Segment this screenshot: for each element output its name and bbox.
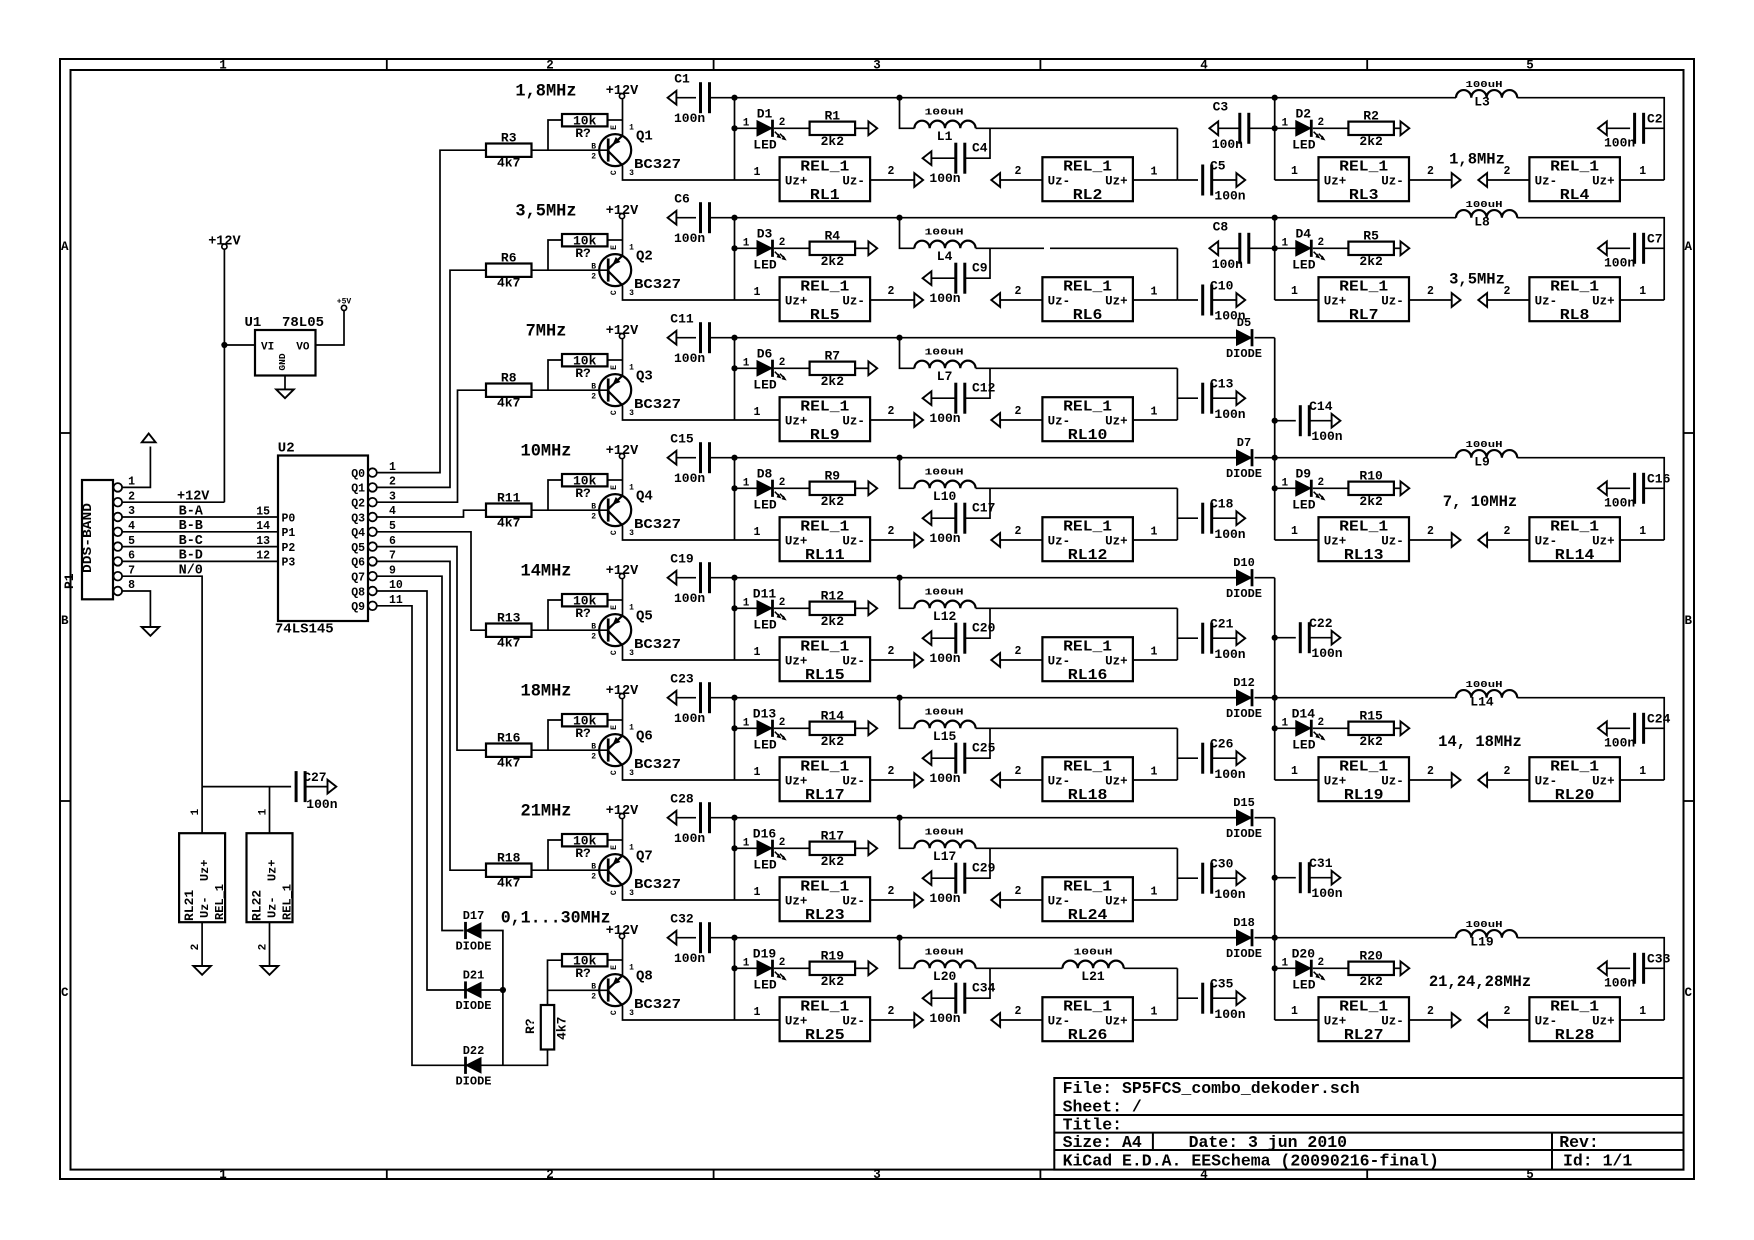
svg-text:1: 1 bbox=[629, 964, 634, 973]
svg-text:100n: 100n bbox=[674, 591, 705, 606]
open arrow after C31 bbox=[1332, 871, 1341, 885]
wire to RL1 pin1 bbox=[735, 179, 780, 181]
diode D18 bbox=[1226, 916, 1262, 961]
wire U2 Q4 to row resistor bbox=[377, 532, 486, 630]
svg-text:REL_1: REL_1 bbox=[1063, 1000, 1112, 1016]
ground under RL21 bbox=[193, 966, 211, 975]
wire row 4 top line bbox=[735, 457, 900, 459]
svg-text:Uz-: Uz- bbox=[1535, 295, 1558, 309]
resistor R19 2k2 bbox=[810, 949, 856, 989]
svg-text:1: 1 bbox=[1151, 646, 1158, 659]
svg-text:L17: L17 bbox=[933, 849, 956, 864]
svg-text:L8: L8 bbox=[1474, 215, 1490, 230]
wire D19 to R19 bbox=[774, 967, 810, 969]
resistor R? 10k row 3 bbox=[562, 353, 608, 381]
open arrow RL17 pin2 bbox=[914, 773, 923, 787]
open arrow RL9 pin2 bbox=[914, 413, 923, 427]
open arrow left of C1 bbox=[668, 91, 677, 105]
svg-text:D1: D1 bbox=[757, 106, 773, 121]
svg-text:B: B bbox=[591, 622, 596, 631]
svg-text:3: 3 bbox=[629, 889, 634, 898]
capacitor C7 bbox=[1604, 232, 1663, 271]
svg-text:DDS-BAND: DDS-BAND bbox=[80, 503, 95, 573]
RL25 pin 1 label bbox=[754, 1006, 761, 1019]
svg-text:7MHz: 7MHz bbox=[526, 322, 567, 342]
svg-text:LED: LED bbox=[753, 258, 777, 273]
svg-text:BC327: BC327 bbox=[634, 877, 681, 893]
svg-text:B-D: B-D bbox=[179, 549, 203, 564]
svg-text:4k7: 4k7 bbox=[497, 276, 520, 291]
RL17 pin 2 label bbox=[888, 765, 895, 778]
wire C22 to arrow bbox=[1309, 637, 1331, 639]
svg-text:BC327: BC327 bbox=[634, 157, 681, 173]
svg-text:D12: D12 bbox=[1233, 676, 1255, 690]
wire to C13 bbox=[1177, 397, 1198, 399]
RL3 pin 2 label bbox=[1427, 165, 1434, 178]
svg-text:Uz-: Uz- bbox=[1048, 535, 1071, 549]
band label 21,24,28MHz bbox=[1429, 973, 1531, 991]
band label 0,1...30MHz bbox=[501, 909, 611, 929]
svg-text:3: 3 bbox=[629, 1009, 634, 1018]
svg-text:REL_1: REL_1 bbox=[1063, 880, 1112, 896]
wire C11 left bbox=[676, 337, 696, 339]
svg-text:Title:: Title: bbox=[1063, 1116, 1122, 1135]
svg-text:1: 1 bbox=[1291, 285, 1298, 298]
wire RL18 pin1 bbox=[1133, 779, 1178, 781]
wire relay supply net bbox=[202, 786, 291, 788]
inductor L7 100uH bbox=[914, 346, 975, 384]
svg-text:1: 1 bbox=[743, 598, 750, 610]
svg-text:RL16: RL16 bbox=[1068, 668, 1108, 684]
RL27 pin 2 label bbox=[1427, 1005, 1434, 1018]
svg-text:C23: C23 bbox=[670, 672, 694, 687]
wire row 2 top line bbox=[735, 217, 900, 219]
wire RL7 pin2 bbox=[1409, 299, 1452, 301]
wire RL11 pin2 bbox=[870, 539, 915, 541]
svg-text:R2: R2 bbox=[1363, 109, 1379, 124]
junction D7 cathode bbox=[1272, 455, 1278, 461]
wire C26 to arrow bbox=[1212, 757, 1237, 759]
svg-text:2: 2 bbox=[1317, 237, 1324, 249]
svg-text:100n: 100n bbox=[674, 471, 705, 486]
open arrow after R10 bbox=[1401, 481, 1410, 495]
svg-text:1: 1 bbox=[1639, 285, 1646, 298]
svg-text:R4: R4 bbox=[824, 229, 840, 244]
resistor R4 2k2 bbox=[810, 229, 856, 269]
junction row 2 right drop bbox=[1272, 215, 1278, 221]
title block frame bbox=[1054, 1078, 1683, 1170]
svg-text:2: 2 bbox=[591, 873, 596, 882]
inductor L21 100uH bbox=[1063, 946, 1124, 984]
wire C1 left bbox=[676, 97, 696, 99]
svg-text:RL9: RL9 bbox=[810, 428, 840, 444]
svg-text:1: 1 bbox=[258, 808, 270, 815]
svg-text:R18: R18 bbox=[497, 851, 521, 866]
resistor R10 2k2 bbox=[1348, 469, 1394, 509]
svg-text:100uH: 100uH bbox=[925, 706, 964, 717]
open arrow left of C23 bbox=[668, 691, 677, 705]
svg-text:Q5: Q5 bbox=[636, 609, 653, 625]
relay RL15 bbox=[780, 637, 871, 684]
open arrow after R1 bbox=[868, 121, 877, 135]
svg-text:2: 2 bbox=[1427, 765, 1434, 778]
wire C19 left bbox=[676, 577, 696, 579]
svg-text:BC327: BC327 bbox=[634, 397, 681, 413]
transistor Q6 BC327 bbox=[591, 724, 681, 778]
svg-text:R20: R20 bbox=[1359, 949, 1383, 964]
wire C4 to arrow bbox=[931, 157, 955, 159]
svg-text:REL_1: REL_1 bbox=[1339, 160, 1388, 176]
svg-text:Uz-: Uz- bbox=[842, 535, 865, 549]
wire C7 left bbox=[1607, 247, 1630, 249]
svg-text:1: 1 bbox=[629, 844, 634, 853]
capacitor C4 bbox=[929, 140, 987, 186]
title block id fields bbox=[1063, 1152, 1633, 1171]
svg-text:100n: 100n bbox=[1214, 647, 1245, 662]
wire corner to RL18 bbox=[1176, 728, 1178, 780]
wire row 5 drop bbox=[734, 578, 736, 660]
resistor R? 10k row 6 bbox=[562, 713, 608, 741]
wire to D6 bbox=[735, 367, 758, 369]
svg-text:Uz-: Uz- bbox=[1048, 175, 1071, 189]
svg-text:B: B bbox=[591, 382, 596, 391]
svg-text:Uz-: Uz- bbox=[842, 895, 865, 909]
RL2 pin 1 label bbox=[1151, 166, 1158, 179]
svg-text:D13: D13 bbox=[753, 706, 777, 721]
open arrow left of C20 bbox=[923, 631, 932, 645]
wire row 2 top line right bbox=[900, 217, 1275, 219]
wire top to L3 bbox=[1275, 97, 1456, 99]
wire 10k to emitter rail bbox=[608, 719, 623, 721]
wire C2 right bbox=[1644, 127, 1665, 129]
wire C24 left bbox=[1607, 727, 1630, 729]
svg-text:C: C bbox=[610, 290, 619, 295]
net label B-D bbox=[179, 549, 203, 564]
relay RL10 bbox=[1042, 397, 1133, 444]
wire U2 Q6 to row resistor bbox=[377, 561, 486, 870]
open arrow left of C15 bbox=[668, 451, 677, 465]
svg-text:RL28: RL28 bbox=[1555, 1028, 1595, 1044]
capacitor C28 bbox=[670, 792, 709, 846]
wire R3 to base node bbox=[532, 120, 563, 150]
svg-text:B: B bbox=[591, 502, 596, 511]
wire to RL13 pin1 bbox=[1275, 539, 1319, 541]
svg-text:C: C bbox=[610, 410, 619, 415]
wire row 7 drop bbox=[734, 818, 736, 900]
junction row 2 input bbox=[731, 215, 737, 221]
svg-text:2: 2 bbox=[779, 357, 786, 369]
wire RL2 pin1 bbox=[1133, 179, 1178, 181]
svg-text:100n: 100n bbox=[929, 651, 960, 666]
open arrow above P1 pin1 bbox=[142, 434, 156, 443]
capacitor C33 bbox=[1604, 952, 1671, 991]
junction +12V rail / U1 VI bbox=[221, 342, 227, 348]
wire to RL27 pin1 bbox=[1275, 1019, 1319, 1021]
svg-text:RL12: RL12 bbox=[1068, 548, 1108, 564]
+12V power symbol row 1 bbox=[606, 84, 639, 99]
svg-text:100uH: 100uH bbox=[925, 106, 964, 117]
wire to RL12 pin2 bbox=[1000, 539, 1042, 541]
wire corner to RL2 bbox=[1176, 128, 1178, 180]
svg-text:100n: 100n bbox=[674, 711, 705, 726]
svg-text:2: 2 bbox=[591, 393, 596, 402]
RL4 pin 1 label bbox=[1639, 165, 1646, 178]
svg-text:C25: C25 bbox=[972, 740, 996, 755]
svg-text:LED: LED bbox=[753, 978, 777, 993]
capacitor C2 bbox=[1604, 112, 1663, 151]
RL18 pin 2 label bbox=[1015, 765, 1022, 778]
svg-text:RL14: RL14 bbox=[1555, 548, 1595, 564]
U2 pin number 14 bbox=[256, 520, 270, 533]
wire tap to C25 bbox=[965, 728, 990, 758]
svg-text:2k2: 2k2 bbox=[821, 974, 845, 989]
relay RL2 bbox=[1042, 157, 1133, 204]
svg-text:18MHz: 18MHz bbox=[521, 682, 572, 702]
svg-text:1: 1 bbox=[743, 118, 750, 130]
svg-text:Uz+: Uz+ bbox=[785, 535, 808, 549]
resistor R? 10k row 1 bbox=[562, 113, 608, 141]
svg-text:2: 2 bbox=[190, 944, 202, 951]
svg-text:3,5MHz: 3,5MHz bbox=[515, 202, 576, 222]
RL1 pin 1 label bbox=[754, 166, 761, 179]
connector P1 DDS-BAND bbox=[62, 476, 135, 600]
svg-text:+12V: +12V bbox=[606, 204, 639, 219]
svg-text:C: C bbox=[610, 1010, 619, 1015]
svg-text:Uz-: Uz- bbox=[1381, 775, 1404, 789]
svg-text:C35: C35 bbox=[1210, 977, 1234, 992]
svg-text:1: 1 bbox=[743, 718, 750, 730]
capacitor C29 bbox=[929, 860, 995, 906]
svg-text:RL5: RL5 bbox=[810, 308, 840, 324]
wire after L10 bbox=[976, 487, 1178, 489]
svg-text:Uz+: Uz+ bbox=[1105, 895, 1128, 909]
svg-text:100n: 100n bbox=[1214, 1007, 1245, 1022]
svg-text:+12V: +12V bbox=[606, 564, 639, 579]
open arrow after R14 bbox=[868, 721, 877, 735]
U2 pin number 13 bbox=[256, 535, 270, 548]
LED D14 bbox=[1281, 706, 1325, 752]
wire to RL5 pin1 bbox=[735, 299, 780, 301]
junction row 7 input bbox=[731, 815, 737, 821]
band label 3,5MHz bbox=[1449, 271, 1505, 289]
wire P1 B-B to U2 P1 bbox=[122, 531, 278, 533]
RL9 pin 2 label bbox=[888, 405, 895, 418]
junction row 4 LED tap bbox=[731, 485, 737, 491]
transistor Q1 BC327 bbox=[591, 124, 681, 178]
open arrow RL25 pin2 bbox=[914, 1013, 923, 1027]
svg-text:100n: 100n bbox=[674, 831, 705, 846]
svg-text:2k2: 2k2 bbox=[1359, 974, 1383, 989]
svg-text:REL_1: REL_1 bbox=[1339, 1000, 1388, 1016]
band label 10MHz bbox=[521, 442, 572, 462]
resistor R6 4k7 bbox=[486, 251, 532, 291]
open arrow after C18 bbox=[1236, 511, 1245, 525]
wire RL20 pin1 bbox=[1620, 779, 1664, 781]
RL16 pin 2 label bbox=[1015, 645, 1022, 658]
svg-text:Uz-: Uz- bbox=[1535, 535, 1558, 549]
+12V power symbol (main rail) bbox=[208, 235, 241, 250]
relay RL27 bbox=[1319, 997, 1410, 1044]
svg-text:REL_1: REL_1 bbox=[1063, 280, 1112, 296]
resistor R12 2k2 bbox=[810, 589, 856, 629]
open arrow RL20 pin2 bbox=[1478, 773, 1487, 787]
svg-text:3: 3 bbox=[629, 529, 634, 538]
svg-text:E: E bbox=[610, 605, 619, 610]
svg-text:D22: D22 bbox=[463, 1044, 485, 1058]
resistor R1 2k2 bbox=[810, 109, 856, 149]
RL21 pin 2 label bbox=[190, 944, 202, 951]
RL19 pin 2 label bbox=[1427, 765, 1434, 778]
svg-text:100n: 100n bbox=[1214, 767, 1245, 782]
open arrow RL16 pin2 bbox=[991, 653, 1000, 667]
resistor R? 10k row 5 bbox=[562, 593, 608, 621]
wire U2 Q0 to row resistor bbox=[377, 150, 486, 472]
svg-text:100uH: 100uH bbox=[1466, 919, 1503, 930]
svg-text:C18: C18 bbox=[1210, 497, 1234, 512]
wire to RL4 pin2 bbox=[1487, 179, 1529, 181]
svg-text:100uH: 100uH bbox=[925, 826, 964, 837]
junction row 2 LED tap bbox=[731, 245, 737, 251]
svg-text:LED: LED bbox=[753, 378, 777, 393]
capacitor C9 bbox=[929, 260, 987, 306]
wire row 8 top line right bbox=[900, 937, 1237, 939]
svg-text:100n: 100n bbox=[1311, 646, 1342, 661]
open arrow RL14 pin2 bbox=[1478, 533, 1487, 547]
wire R17 to arrow bbox=[855, 847, 868, 849]
wire corner to RL26 bbox=[1176, 968, 1178, 1020]
svg-text:P2: P2 bbox=[282, 542, 296, 555]
wire after gap bbox=[1050, 247, 1177, 249]
svg-text:Q2: Q2 bbox=[636, 249, 653, 265]
wire to C30 bbox=[1177, 877, 1198, 879]
svg-text:C: C bbox=[1684, 986, 1692, 1000]
svg-text:100uH: 100uH bbox=[925, 226, 964, 237]
wire R7 to arrow bbox=[855, 367, 868, 369]
wire C31 to arrow bbox=[1309, 877, 1331, 879]
svg-text:100n: 100n bbox=[929, 1011, 960, 1026]
wire C33 left bbox=[1607, 967, 1630, 969]
svg-text:BC327: BC327 bbox=[634, 637, 681, 653]
wire RL9 pin2 bbox=[870, 419, 915, 421]
band label 7, 10MHz bbox=[1443, 493, 1517, 511]
svg-text:100n: 100n bbox=[1311, 886, 1342, 901]
RL26 pin 2 label bbox=[1015, 1005, 1022, 1018]
inductor L3 100uH bbox=[1456, 79, 1517, 110]
relay RL25 bbox=[780, 997, 871, 1044]
wire C9 to arrow bbox=[931, 277, 955, 279]
junction row 1 LED tap bbox=[731, 125, 737, 131]
RL16 pin 1 label bbox=[1151, 646, 1158, 659]
RL24 pin 2 label bbox=[1015, 885, 1022, 898]
relay RL11 bbox=[780, 517, 871, 564]
RL15 pin 2 label bbox=[888, 645, 895, 658]
+12V power symbol row 7 bbox=[606, 804, 639, 819]
resistor R3 4k7 bbox=[486, 131, 532, 171]
svg-text:1: 1 bbox=[1151, 886, 1158, 899]
svg-text:1: 1 bbox=[1281, 478, 1288, 490]
relay RL24 bbox=[1042, 877, 1133, 924]
wire to C26 bbox=[1177, 757, 1198, 759]
open arrow left of C25 bbox=[923, 751, 932, 765]
svg-text:1: 1 bbox=[754, 406, 761, 419]
capacitor C30 bbox=[1203, 857, 1246, 902]
wire to D14 bbox=[1275, 727, 1296, 729]
RL23 pin 2 label bbox=[888, 885, 895, 898]
svg-text:E: E bbox=[610, 245, 619, 250]
wire RL21 pin2 bbox=[201, 922, 203, 966]
wire drop to L17 bbox=[900, 818, 915, 849]
wire row 1 drop bbox=[734, 98, 736, 180]
wire C5 to arrow bbox=[1212, 179, 1237, 181]
wire R? to Q8 node bbox=[548, 960, 563, 1005]
RL5 pin 2 label bbox=[888, 285, 895, 298]
wire drop to L15 bbox=[900, 698, 915, 729]
open arrow left of C3 bbox=[1209, 121, 1218, 135]
RL26 pin 1 label bbox=[1151, 1006, 1158, 1019]
wire RL21 pin1 bbox=[201, 787, 203, 834]
wire corner to RL16 bbox=[1176, 608, 1178, 660]
wire Q8 collector bbox=[623, 1005, 735, 1020]
wire row 6 drop bbox=[734, 698, 736, 780]
svg-text:1: 1 bbox=[1291, 1005, 1298, 1018]
wire to C14 bbox=[1275, 420, 1296, 422]
relay RL13 bbox=[1319, 517, 1410, 564]
svg-text:2k2: 2k2 bbox=[821, 494, 845, 509]
wire R16 to base node bbox=[532, 720, 563, 750]
svg-text:REL_1: REL_1 bbox=[1550, 760, 1599, 776]
svg-text:100uH: 100uH bbox=[925, 946, 964, 957]
transistor Q3 BC327 bbox=[591, 364, 681, 418]
svg-text:C13: C13 bbox=[1210, 377, 1234, 392]
svg-text:C4: C4 bbox=[972, 140, 988, 155]
inductor L15 100uH bbox=[914, 706, 975, 744]
wire Q7 collector bbox=[623, 885, 735, 900]
wire D10 cathode bbox=[1255, 577, 1275, 579]
wire after L21 bbox=[1124, 967, 1178, 969]
open arrow RL28 pin2 bbox=[1478, 1013, 1487, 1027]
svg-text:1: 1 bbox=[629, 244, 634, 253]
svg-text:1: 1 bbox=[190, 808, 202, 815]
capacitor C1 bbox=[674, 72, 710, 126]
wire D13 to R14 bbox=[774, 727, 810, 729]
wire D8 to R9 bbox=[774, 487, 810, 489]
wire D18 cathode bbox=[1255, 937, 1275, 939]
LED D11 bbox=[743, 586, 787, 632]
wire right drop row 1 bbox=[1274, 98, 1276, 180]
wire base node to Q7 bbox=[548, 869, 608, 871]
wire R19 to arrow bbox=[855, 967, 868, 969]
svg-text:100n: 100n bbox=[674, 951, 705, 966]
svg-text:1: 1 bbox=[1151, 766, 1158, 779]
svg-text:RL1: RL1 bbox=[810, 188, 840, 204]
wire C8 left bbox=[1218, 247, 1240, 249]
resistor R9 2k2 bbox=[810, 469, 856, 509]
svg-text:4k7: 4k7 bbox=[497, 876, 520, 891]
RL4 pin 2 label bbox=[1504, 165, 1511, 178]
svg-text:Uz-: Uz- bbox=[1048, 1015, 1071, 1029]
relay RL26 bbox=[1042, 997, 1133, 1044]
svg-text:L20: L20 bbox=[933, 969, 957, 984]
open arrow RL18 pin2 bbox=[991, 773, 1000, 787]
junction row 5 LED tap bbox=[731, 605, 737, 611]
svg-text:Uz+: Uz+ bbox=[266, 860, 280, 882]
svg-text:REL_1: REL_1 bbox=[800, 880, 849, 896]
wire row 8 drop bbox=[734, 938, 736, 1020]
open arrow right of C27 bbox=[328, 780, 337, 794]
svg-text:Uz-: Uz- bbox=[1381, 175, 1404, 189]
svg-text:A: A bbox=[61, 240, 69, 254]
wire base node to Q2 bbox=[548, 269, 608, 271]
